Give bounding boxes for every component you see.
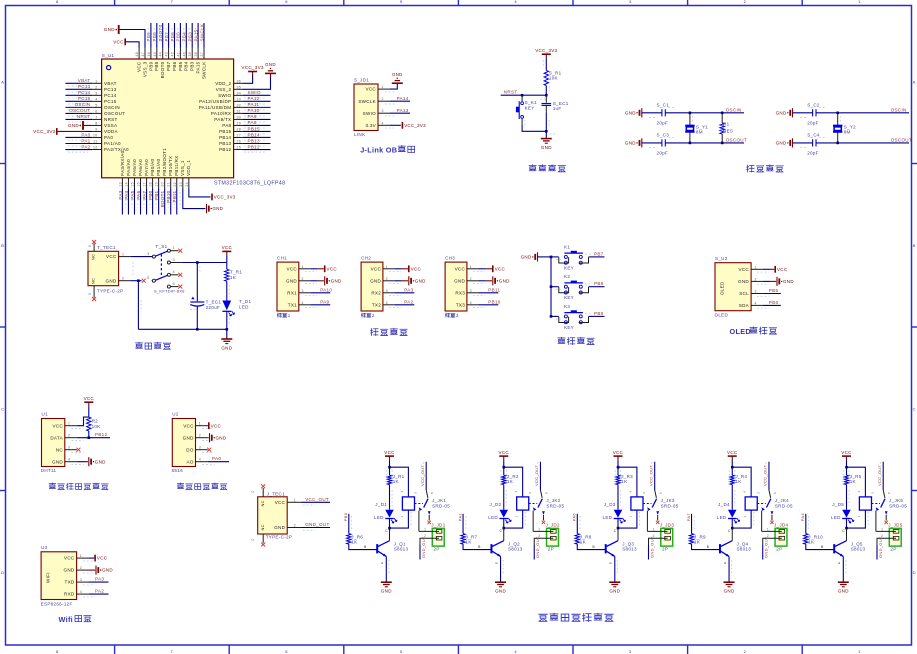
- svg-text:7: 7: [171, 649, 174, 654]
- svg-text:0: 0: [88, 293, 92, 295]
- svg-text:OSCOUT: OSCOUT: [891, 137, 912, 142]
- svg-text:PA0: PA0: [212, 456, 221, 461]
- svg-text:11: 11: [93, 140, 97, 144]
- svg-text:42: 42: [171, 52, 175, 57]
- svg-text:PB8: PB8: [154, 61, 159, 71]
- svg-text:PA1: PA1: [457, 513, 462, 522]
- svg-text:1: 1: [858, 649, 861, 654]
- svg-text:1: 1: [400, 515, 404, 517]
- svg-text:S_C3: S_C3: [657, 133, 670, 138]
- svg-text:TYPE-C-2P: TYPE-C-2P: [266, 535, 292, 540]
- svg-text:PB12: PB12: [248, 144, 260, 149]
- svg-text:NC: NC: [260, 500, 265, 506]
- svg-text:K3: K3: [564, 304, 570, 309]
- svg-text:S_EC1: S_EC1: [553, 101, 569, 106]
- svg-text:GND: GND: [52, 459, 63, 464]
- svg-text:3: 3: [95, 91, 97, 95]
- svg-text:J_D4: J_D4: [718, 502, 730, 507]
- svg-text:KEY: KEY: [525, 106, 535, 111]
- svg-text:PA7: PA7: [686, 513, 691, 522]
- svg-text:2: 2: [302, 277, 304, 281]
- svg-text:PB0: PB0: [148, 190, 153, 200]
- svg-text:PB3: PB3: [190, 61, 195, 71]
- svg-text:1uF: 1uF: [553, 106, 562, 111]
- svg-text:PB9: PB9: [594, 311, 604, 316]
- svg-text:17: 17: [143, 182, 147, 187]
- svg-text:37: 37: [200, 52, 204, 57]
- svg-text:GND: GND: [415, 278, 426, 283]
- svg-text:2P: 2P: [434, 547, 440, 552]
- svg-text:J_JD2: J_JD2: [545, 522, 560, 527]
- svg-text:PB2/BOOT1: PB2/BOOT1: [162, 148, 167, 176]
- svg-text:3.3V: 3.3V: [365, 123, 376, 128]
- svg-text:TXD: TXD: [65, 580, 75, 585]
- svg-text:2: 2: [382, 97, 384, 101]
- svg-text:PA9: PA9: [320, 300, 329, 305]
- svg-text:3: 3: [755, 290, 757, 294]
- svg-text:2: 2: [470, 277, 472, 281]
- svg-text:43: 43: [165, 52, 169, 57]
- svg-text:GND: GND: [104, 27, 115, 32]
- svg-text:J_JK3: J_JK3: [661, 498, 675, 503]
- svg-text:SWIO: SWIO: [248, 90, 261, 95]
- svg-text:SRD-05: SRD-05: [775, 503, 793, 508]
- svg-text:C: C: [1, 406, 4, 411]
- svg-text:J_D5: J_D5: [832, 502, 844, 507]
- svg-text:2: 2: [199, 434, 201, 438]
- svg-text:PC15: PC15: [104, 99, 117, 104]
- svg-text:3: 3: [80, 578, 82, 582]
- svg-text:4: 4: [514, 649, 517, 654]
- svg-text:TYPE-C-2P: TYPE-C-2P: [97, 288, 123, 293]
- svg-text:OLED: OLED: [715, 312, 729, 317]
- svg-text:J_JK5: J_JK5: [889, 498, 903, 503]
- svg-text:A: A: [913, 79, 916, 84]
- svg-text:VDD_1: VDD_1: [186, 160, 191, 176]
- svg-text:J_D2: J_D2: [490, 502, 502, 507]
- svg-text:GND: GND: [331, 278, 342, 283]
- svg-text:LED: LED: [374, 515, 384, 520]
- svg-text:GND_OUT: GND_OUT: [649, 536, 654, 558]
- svg-text:4: 4: [302, 301, 304, 305]
- svg-text:1: 1: [767, 527, 769, 531]
- svg-text:6: 6: [285, 0, 288, 4]
- svg-text:28: 28: [237, 128, 242, 132]
- svg-text:PA14: PA14: [397, 96, 409, 101]
- svg-text:220uF: 220uF: [206, 305, 220, 310]
- svg-text:NRST: NRST: [504, 89, 518, 94]
- svg-text:CH3: CH3: [445, 255, 455, 260]
- svg-text:OSCOUT: OSCOUT: [726, 137, 747, 142]
- svg-text:VCC_3V3: VCC_3V3: [241, 65, 263, 70]
- svg-text:J_Q4: J_Q4: [736, 541, 748, 546]
- svg-text:S_K1: S_K1: [525, 100, 537, 105]
- svg-text:PA3: PA3: [95, 577, 104, 582]
- svg-text:VCC: VCC: [84, 396, 95, 401]
- svg-text:J_R5: J_R5: [850, 474, 862, 479]
- svg-text:VCC: VCC: [495, 266, 506, 271]
- svg-text:NRST: NRST: [104, 117, 118, 122]
- svg-text:PA8: PA8: [222, 123, 231, 128]
- svg-text:LINK: LINK: [354, 132, 365, 137]
- svg-text:24: 24: [185, 182, 189, 187]
- svg-text:S_C1: S_C1: [657, 103, 670, 108]
- svg-text:SWIO: SWIO: [363, 111, 376, 116]
- svg-text:34: 34: [237, 91, 242, 95]
- svg-text:1: 1: [514, 515, 518, 517]
- svg-text:46: 46: [147, 52, 151, 57]
- svg-text:PA6: PA6: [572, 513, 577, 522]
- svg-text:S_JD1: S_JD1: [354, 78, 369, 83]
- svg-text:VDDA: VDDA: [104, 129, 118, 134]
- svg-text:J_Q1: J_Q1: [394, 541, 406, 546]
- svg-text:LED: LED: [603, 515, 613, 520]
- svg-text:0: 0: [251, 538, 255, 540]
- svg-text:15: 15: [130, 182, 134, 187]
- svg-text:KEY: KEY: [564, 295, 574, 300]
- svg-text:PB11/RX: PB11/RX: [174, 155, 179, 175]
- svg-text:J_Q3: J_Q3: [622, 541, 634, 546]
- svg-text:VCC: VCC: [183, 423, 194, 428]
- svg-text:4: 4: [755, 301, 757, 305]
- svg-text:39: 39: [188, 52, 192, 57]
- svg-text:KEY: KEY: [564, 325, 574, 330]
- svg-text:PA2: PA2: [404, 300, 413, 305]
- svg-text:20pF: 20pF: [657, 150, 669, 155]
- svg-text:5: 5: [147, 276, 149, 280]
- svg-text:J_Q2: J_Q2: [508, 541, 520, 546]
- svg-text:OSCOUT: OSCOUT: [69, 108, 90, 113]
- svg-text:PB5: PB5: [769, 288, 779, 293]
- svg-text:KEY: KEY: [564, 265, 574, 270]
- svg-text:J_R7: J_R7: [466, 534, 478, 539]
- svg-text:2P: 2P: [662, 547, 668, 552]
- svg-text:PB8: PB8: [594, 281, 604, 286]
- svg-text:C: C: [614, 529, 617, 533]
- svg-text:VCC: VCC: [739, 267, 750, 272]
- svg-text:VCC: VCC: [727, 450, 738, 455]
- svg-text:S_R1: S_R1: [549, 70, 562, 75]
- svg-text:AO: AO: [187, 459, 194, 464]
- svg-text:PA5/A0: PA5/A0: [132, 159, 137, 176]
- svg-text:J_R9: J_R9: [694, 534, 706, 539]
- svg-text:1K: 1K: [808, 540, 814, 545]
- svg-text:PA2/TX/A0: PA2/TX/A0: [104, 147, 129, 152]
- svg-text:OSCOUT: OSCOUT: [104, 111, 125, 116]
- svg-text:GND_OUT: GND_OUT: [535, 536, 540, 558]
- svg-text:NC: NC: [56, 447, 64, 452]
- svg-text:PB11: PB11: [488, 288, 500, 293]
- svg-text:GND: GND: [625, 110, 636, 115]
- svg-text:4: 4: [95, 97, 97, 101]
- svg-text:2: 2: [95, 85, 97, 89]
- svg-text:S_C4: S_C4: [807, 133, 820, 138]
- svg-text:J_R6: J_R6: [351, 534, 363, 539]
- svg-text:OLED: OLED: [730, 327, 751, 336]
- svg-text:S_U2: S_U2: [715, 256, 728, 261]
- svg-text:GND: GND: [95, 459, 106, 464]
- svg-text:PA1: PA1: [81, 138, 90, 143]
- svg-text:0: 0: [251, 490, 255, 492]
- svg-text:PB0/A0: PB0/A0: [150, 159, 155, 176]
- svg-text:J_D3: J_D3: [604, 502, 616, 507]
- svg-text:2: 2: [294, 524, 296, 528]
- svg-text:S8013: S8013: [394, 547, 409, 552]
- svg-text:S8013: S8013: [851, 547, 866, 552]
- svg-text:T_R1: T_R1: [230, 270, 242, 275]
- svg-text:VCC: VCC: [106, 254, 117, 259]
- svg-text:5: 5: [773, 492, 777, 494]
- svg-text:K2: K2: [564, 274, 570, 279]
- svg-text:S8013: S8013: [622, 547, 637, 552]
- svg-text:6: 6: [173, 282, 175, 286]
- svg-text:PA3/RX/A0: PA3/RX/A0: [120, 150, 125, 176]
- svg-text:B: B: [1, 243, 4, 248]
- svg-text:1: 1: [122, 253, 124, 257]
- svg-text:U2: U2: [172, 412, 179, 417]
- svg-text:OSCIN: OSCIN: [891, 107, 907, 112]
- svg-text:VCC_OUT: VCC_OUT: [420, 465, 425, 486]
- svg-text:1K: 1K: [393, 479, 399, 484]
- svg-text:18: 18: [149, 182, 153, 187]
- svg-text:GND: GND: [495, 589, 506, 594]
- svg-text:GND: GND: [392, 72, 403, 77]
- svg-text:PB15: PB15: [248, 126, 260, 131]
- svg-text:VCC_OUT: VCC_OUT: [648, 465, 653, 486]
- svg-text:1K: 1K: [580, 540, 586, 545]
- svg-text:GND_OUT: GND_OUT: [878, 536, 883, 558]
- svg-text:20pF: 20pF: [807, 120, 819, 125]
- svg-text:PA15: PA15: [196, 61, 201, 73]
- svg-text:PB12: PB12: [219, 147, 231, 152]
- svg-text:1: 1: [386, 265, 388, 269]
- svg-text:PB6: PB6: [172, 61, 177, 71]
- svg-text:NC: NC: [260, 524, 265, 530]
- svg-text:3: 3: [528, 492, 532, 494]
- svg-text:48: 48: [135, 52, 139, 57]
- svg-text:D: D: [913, 570, 916, 575]
- svg-text:PA6/A0: PA6/A0: [138, 159, 143, 176]
- svg-text:SWCLK: SWCLK: [201, 62, 206, 80]
- svg-text:9: 9: [95, 128, 97, 132]
- svg-text:2: 2: [122, 277, 124, 281]
- svg-text:1K: 1K: [230, 275, 236, 280]
- svg-text:23: 23: [179, 182, 183, 187]
- svg-text:PB1/A0: PB1/A0: [156, 159, 161, 176]
- svg-text:7: 7: [95, 116, 97, 120]
- svg-text:S_KFTDIP-8X8: S_KFTDIP-8X8: [154, 289, 185, 294]
- svg-text:PB7: PB7: [594, 251, 604, 256]
- svg-text:VCC_3V3: VCC_3V3: [214, 195, 236, 200]
- svg-text:NRST: NRST: [77, 114, 91, 119]
- svg-text:J_JK4: J_JK4: [775, 498, 789, 503]
- svg-text:8: 8: [56, 0, 59, 4]
- svg-text:J_Q5: J_Q5: [851, 541, 863, 546]
- svg-text:3: 3: [629, 649, 632, 654]
- svg-text:STM32F103C8T6_LQFP48: STM32F103C8T6_LQFP48: [214, 180, 285, 186]
- svg-text:GND: GND: [274, 525, 285, 530]
- svg-text:J_TEC1: J_TEC1: [267, 491, 285, 496]
- svg-text:3: 3: [382, 109, 384, 113]
- svg-text:3: 3: [470, 289, 472, 293]
- svg-text:T_D1: T_D1: [239, 299, 251, 304]
- svg-text:GND: GND: [265, 62, 276, 67]
- svg-text:J_JK2: J_JK2: [546, 498, 560, 503]
- svg-text:5: 5: [659, 492, 663, 494]
- svg-text:PA4: PA4: [124, 190, 129, 199]
- svg-text:J_R1: J_R1: [393, 474, 405, 479]
- svg-text:1K: 1K: [694, 540, 700, 545]
- svg-text:33: 33: [237, 97, 242, 101]
- svg-text:PA10/RX: PA10/RX: [211, 111, 231, 116]
- svg-text:20pF: 20pF: [657, 120, 669, 125]
- svg-text:LED: LED: [488, 515, 498, 520]
- svg-text:1K: 1K: [507, 479, 513, 484]
- svg-text:1: 1: [288, 313, 291, 318]
- svg-text:J_R10: J_R10: [808, 534, 823, 539]
- svg-text:PA11/USB/DM: PA11/USB/DM: [199, 105, 232, 110]
- svg-text:PB5: PB5: [178, 61, 183, 71]
- svg-text:GND: GND: [216, 435, 227, 440]
- svg-text:3: 3: [147, 252, 149, 256]
- svg-text:1K: 1K: [850, 479, 856, 484]
- svg-text:4: 4: [382, 121, 384, 125]
- svg-text:2P: 2P: [891, 547, 897, 552]
- svg-text:5516: 5516: [172, 468, 183, 473]
- svg-text:E: E: [494, 562, 498, 564]
- svg-text:PC14: PC14: [104, 93, 117, 98]
- svg-text:PA10: PA10: [248, 108, 260, 113]
- svg-text:1: 1: [199, 422, 201, 426]
- svg-text:OSCIN: OSCIN: [75, 102, 91, 107]
- svg-text:J_JD4: J_JD4: [774, 522, 789, 527]
- svg-text:44: 44: [159, 52, 163, 57]
- svg-text:1: 1: [881, 527, 883, 531]
- svg-text:GND_OUT: GND_OUT: [421, 536, 426, 558]
- svg-text:SCL: SCL: [739, 291, 749, 296]
- svg-text:25: 25: [237, 146, 242, 150]
- svg-text:1: 1: [382, 85, 384, 89]
- svg-text:47: 47: [141, 52, 145, 57]
- svg-text:1K: 1K: [351, 540, 357, 545]
- svg-text:S_Y1: S_Y1: [696, 124, 708, 129]
- svg-text:1: 1: [95, 79, 97, 83]
- svg-text:PB10: PB10: [166, 190, 171, 202]
- svg-text:T_EC1: T_EC1: [206, 300, 222, 305]
- svg-text:PA0: PA0: [104, 135, 113, 140]
- svg-text:4: 4: [199, 458, 201, 462]
- svg-text:VCC: VCC: [275, 500, 286, 505]
- svg-text:6: 6: [285, 649, 288, 654]
- svg-text:VCC: VCC: [613, 450, 624, 455]
- svg-text:GND: GND: [183, 435, 194, 440]
- svg-text:R1: R1: [723, 121, 730, 126]
- svg-text:1: 1: [538, 527, 540, 531]
- svg-text:VCC: VCC: [97, 556, 108, 561]
- svg-text:VCC: VCC: [327, 266, 338, 271]
- svg-text:J_R3: J_R3: [621, 474, 633, 479]
- svg-text:5: 5: [544, 492, 548, 494]
- svg-text:4: 4: [80, 590, 82, 594]
- svg-text:VCC_OUT: VCC_OUT: [763, 465, 768, 486]
- svg-text:CH1: CH1: [277, 255, 287, 260]
- svg-text:J_JD1: J_JD1: [431, 522, 446, 527]
- svg-text:GND: GND: [63, 568, 74, 573]
- svg-text:2: 2: [68, 434, 70, 438]
- svg-text:C: C: [499, 529, 502, 533]
- svg-text:C: C: [842, 529, 845, 533]
- svg-text:GND: GND: [105, 278, 116, 283]
- svg-text:2P: 2P: [548, 547, 554, 552]
- svg-text:CH2: CH2: [361, 255, 371, 260]
- svg-text:PA13: PA13: [397, 108, 409, 113]
- svg-text:20: 20: [161, 182, 165, 187]
- svg-text:3: 3: [386, 289, 388, 293]
- svg-text:VCC: VCC: [222, 245, 233, 250]
- svg-text:J_JK1: J_JK1: [432, 498, 446, 503]
- svg-text:8: 8: [56, 649, 59, 654]
- svg-text:VCC: VCC: [137, 61, 142, 72]
- svg-text:4: 4: [400, 491, 404, 493]
- svg-text:E: E: [609, 562, 613, 564]
- svg-text:S_C2: S_C2: [807, 103, 820, 108]
- svg-text:TX3: TX3: [456, 302, 465, 307]
- svg-text:SDA: SDA: [739, 303, 750, 308]
- svg-text:1: 1: [857, 515, 861, 517]
- svg-text:B: B: [364, 545, 366, 549]
- svg-text:RX3: RX3: [455, 290, 465, 295]
- svg-text:10K: 10K: [92, 424, 101, 429]
- svg-text:GND: GND: [625, 141, 636, 146]
- svg-text:RX1: RX1: [287, 290, 297, 295]
- svg-text:22: 22: [173, 182, 177, 187]
- svg-text:PB10/TX: PB10/TX: [168, 156, 173, 176]
- svg-text:VBAT: VBAT: [78, 78, 91, 83]
- svg-text:VCC_OUT: VCC_OUT: [877, 465, 882, 486]
- svg-text:GND: GND: [381, 589, 392, 594]
- svg-text:VCC: VCC: [777, 267, 788, 272]
- svg-text:1: 1: [470, 265, 472, 269]
- svg-text:36: 36: [237, 79, 242, 83]
- svg-text:GND: GND: [521, 255, 532, 260]
- svg-text:1: 1: [80, 554, 82, 558]
- svg-text:ESP8266-12F: ESP8266-12F: [41, 602, 73, 607]
- svg-text:26: 26: [237, 140, 242, 144]
- svg-text:1: 1: [294, 498, 296, 502]
- svg-text:VCC_OUT: VCC_OUT: [305, 497, 329, 502]
- svg-text:PB15: PB15: [219, 129, 231, 134]
- svg-text:5: 5: [430, 492, 434, 494]
- svg-text:3: 3: [756, 492, 760, 494]
- svg-text:C: C: [385, 529, 388, 533]
- svg-text:38: 38: [194, 52, 198, 57]
- svg-text:SRD-05: SRD-05: [546, 503, 564, 508]
- svg-text:1: 1: [653, 527, 655, 531]
- svg-text:DATA: DATA: [50, 435, 63, 440]
- svg-text:VSS_1: VSS_1: [180, 160, 185, 176]
- svg-text:C: C: [913, 406, 916, 411]
- svg-text:E: E: [380, 562, 384, 564]
- svg-text:PB12: PB12: [95, 432, 107, 437]
- svg-text:27: 27: [237, 134, 242, 138]
- svg-text:21: 21: [167, 182, 171, 187]
- svg-text:45: 45: [153, 52, 157, 57]
- svg-text:3: 3: [629, 0, 632, 4]
- svg-text:PA9/TX: PA9/TX: [214, 117, 231, 122]
- svg-text:VCC_OUT: VCC_OUT: [534, 465, 539, 486]
- svg-text:VCC_3V3: VCC_3V3: [535, 48, 557, 53]
- svg-text:GND: GND: [783, 279, 794, 284]
